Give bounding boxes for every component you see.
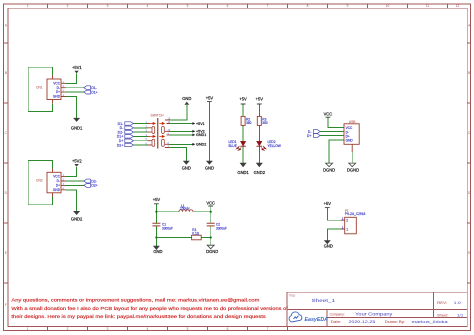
svg-text:TITLE:: TITLE:: [289, 293, 296, 297]
svg-text:YELLOW: YELLOW: [268, 144, 281, 148]
svg-text:360: 360: [246, 121, 252, 125]
svg-text:1: 1: [27, 4, 29, 8]
svg-text:markus_ildoka: markus_ildoka: [412, 320, 450, 324]
svg-text:3300uF: 3300uF: [162, 227, 173, 231]
svg-text:2: 2: [67, 327, 69, 331]
svg-text:D-: D-: [57, 86, 60, 90]
svg-text:3: 3: [107, 4, 109, 8]
svg-text:F: F: [5, 303, 7, 307]
svg-text:D1+: D1+: [91, 90, 98, 94]
svg-text:150uH: 150uH: [180, 207, 190, 211]
svg-text:Company:: Company:: [330, 312, 345, 316]
svg-text:VCC: VCC: [53, 175, 60, 179]
svg-text:D+: D+: [307, 134, 312, 138]
svg-text:360: 360: [262, 121, 268, 125]
svg-text:4: 4: [147, 327, 149, 331]
svg-text:12: 12: [456, 4, 460, 8]
svg-text:Any questions, comments or imp: Any questions, comments or improvement s…: [11, 298, 259, 303]
svg-text:GND1: GND1: [196, 133, 206, 137]
svg-text:+5V1: +5V1: [72, 65, 82, 70]
svg-text:D-: D-: [57, 179, 60, 183]
svg-text:1.0: 1.0: [454, 301, 461, 305]
svg-text:3300uF: 3300uF: [216, 227, 227, 231]
svg-text:+5V: +5V: [324, 201, 332, 206]
svg-text:+5V: +5V: [206, 96, 214, 101]
svg-text:6: 6: [227, 4, 229, 8]
svg-text:5: 5: [187, 4, 189, 8]
svg-text:REV:: REV:: [437, 301, 447, 305]
svg-text:PH-2A_C2918: PH-2A_C2918: [345, 212, 366, 216]
svg-text:D1-: D1-: [91, 86, 97, 90]
svg-text:With a small donation fee I al: With a small donation fee I also do PCB …: [11, 306, 288, 311]
svg-text:CN1: CN1: [36, 85, 43, 89]
svg-text:GND1: GND1: [71, 126, 83, 131]
svg-text:1: 1: [27, 327, 29, 331]
svg-text:1: 1: [346, 227, 348, 231]
svg-text:4: 4: [147, 4, 149, 8]
svg-text:2: 2: [346, 219, 348, 223]
svg-text:+5V: +5V: [256, 97, 264, 102]
svg-text:+5V1: +5V1: [196, 122, 205, 126]
svg-text:VCC: VCC: [53, 81, 60, 85]
svg-text:D2-: D2-: [91, 179, 97, 183]
svg-text:6: 6: [227, 327, 229, 331]
svg-text:1/1: 1/1: [457, 313, 464, 317]
svg-text:GND: GND: [346, 139, 354, 143]
svg-text:BLUE: BLUE: [229, 144, 237, 148]
svg-text:0.1Ω: 0.1Ω: [192, 232, 199, 236]
svg-text:8: 8: [307, 4, 309, 8]
svg-text:VCC: VCC: [206, 200, 215, 205]
svg-text:EasyEDA: EasyEDA: [305, 317, 329, 323]
svg-text:+5V2: +5V2: [72, 158, 82, 163]
svg-text:their designs. Here is my payp: their designs. Here is my paypal me link…: [11, 314, 266, 319]
svg-text:5: 5: [187, 327, 189, 331]
svg-text:Sheet:: Sheet:: [437, 313, 449, 317]
svg-text:2: 2: [67, 4, 69, 8]
svg-text:3: 3: [107, 327, 109, 331]
svg-text:GND: GND: [53, 188, 61, 192]
svg-text:GND: GND: [153, 249, 162, 254]
svg-text:9: 9: [347, 4, 349, 8]
svg-text:GND1: GND1: [237, 170, 249, 175]
svg-text:Date:: Date:: [331, 320, 342, 324]
svg-text:Drawn By:: Drawn By:: [385, 320, 406, 324]
svg-text:D2+: D2+: [91, 184, 98, 188]
svg-text:7: 7: [267, 4, 269, 8]
svg-text:+5V: +5V: [153, 197, 161, 202]
svg-text:B: B: [468, 71, 470, 75]
svg-text:GND2: GND2: [254, 170, 266, 175]
svg-text:CN2: CN2: [36, 179, 43, 183]
svg-text:GND: GND: [53, 95, 61, 99]
svg-text:D+: D+: [56, 184, 60, 188]
svg-text:USB: USB: [349, 120, 357, 124]
svg-text:GND2: GND2: [71, 217, 83, 222]
svg-text:VCC: VCC: [324, 112, 333, 117]
svg-text:10: 10: [386, 4, 390, 8]
svg-text:D+: D+: [56, 90, 60, 94]
svg-text:11: 11: [426, 4, 430, 8]
svg-text:7: 7: [267, 327, 269, 331]
svg-text:DGND: DGND: [323, 167, 335, 172]
svg-text:DGND: DGND: [206, 249, 218, 254]
svg-text:B: B: [5, 71, 7, 75]
svg-text:E: E: [468, 251, 470, 255]
svg-text:GND: GND: [324, 244, 333, 249]
svg-text:GND: GND: [205, 165, 214, 170]
svg-text:+5V: +5V: [239, 97, 247, 102]
svg-text:Sheet_1: Sheet_1: [312, 298, 336, 304]
svg-text:Your Company: Your Company: [355, 312, 393, 317]
svg-text:2020-12-25: 2020-12-25: [349, 320, 376, 324]
svg-text:SWITCH: SWITCH: [151, 113, 165, 117]
svg-text:E: E: [5, 251, 7, 255]
svg-text:D2+: D2+: [117, 143, 124, 147]
svg-text:GND: GND: [182, 165, 191, 170]
svg-text:DGND: DGND: [347, 167, 359, 172]
svg-text:GND2: GND2: [196, 143, 206, 147]
svg-text:GND: GND: [182, 96, 191, 101]
